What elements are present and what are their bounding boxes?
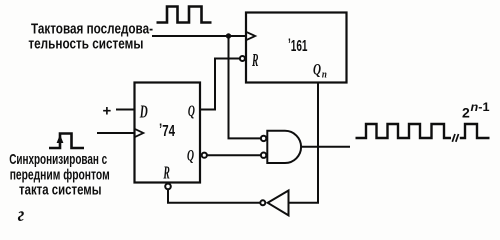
svg-text:’161: ’161 xyxy=(288,37,308,56)
pin: '74 Q-bar bubble xyxy=(202,153,207,158)
svg-text:г: г xyxy=(18,204,25,224)
wire: '74 Q to '161 R xyxy=(200,59,240,110)
svg-text:n-1: n-1 xyxy=(471,102,491,114)
wire: AND output xyxy=(301,146,350,148)
wire: clock into '74 xyxy=(97,132,135,134)
clock waveform (two pulses, top left) xyxy=(157,7,212,23)
svg-text:+: + xyxy=(103,103,112,120)
waveform break mark xyxy=(452,134,455,142)
svg-text:такта системы: такта системы xyxy=(19,182,102,199)
wire: '161 Qn down to inverter input xyxy=(290,83,319,203)
svg-text:R: R xyxy=(251,50,258,70)
gate: inverter (left pointing) xyxy=(268,191,289,216)
svg-text:Q: Q xyxy=(187,148,194,165)
pin: inverter output bubble xyxy=(260,200,265,205)
node: clock junction xyxy=(226,33,231,38)
wire: clock line to '161 xyxy=(152,35,246,37)
svg-text:Q: Q xyxy=(313,62,321,79)
svg-text:R: R xyxy=(163,162,170,182)
svg-text:’74: ’74 xyxy=(159,122,175,141)
wire: '74 Q-bar to AND gate bottom input xyxy=(207,154,261,156)
svg-text:D: D xyxy=(139,101,148,121)
output waveform 2^(n-1) xyxy=(356,124,452,138)
pin: '74 R bubble xyxy=(165,184,171,190)
counter U1 '161 xyxy=(246,13,347,83)
sync pulse symbol (bottom left) xyxy=(49,134,84,149)
pin: '161 R bubble xyxy=(240,56,245,61)
pin: '74 clock dynamic input xyxy=(135,129,144,137)
wire: inverter output to '74 R xyxy=(168,189,260,203)
svg-text:2: 2 xyxy=(462,105,470,121)
svg-text:тельность системы: тельность системы xyxy=(28,36,143,53)
pin: AND input bubble top xyxy=(261,136,266,141)
flip-flop U2 '74 xyxy=(135,83,201,183)
svg-text:Q: Q xyxy=(188,103,195,120)
gate: AND with inverted inputs xyxy=(267,131,301,163)
svg-text:п: п xyxy=(322,70,327,81)
pin: AND input bubble bottom xyxy=(261,153,266,158)
wire: clock branch down to AND gate top input xyxy=(229,36,261,138)
wire: +1 level to D input xyxy=(116,109,135,111)
pin: '161 clock dynamic input xyxy=(246,32,255,40)
sync pulse edge arrow xyxy=(57,135,64,144)
